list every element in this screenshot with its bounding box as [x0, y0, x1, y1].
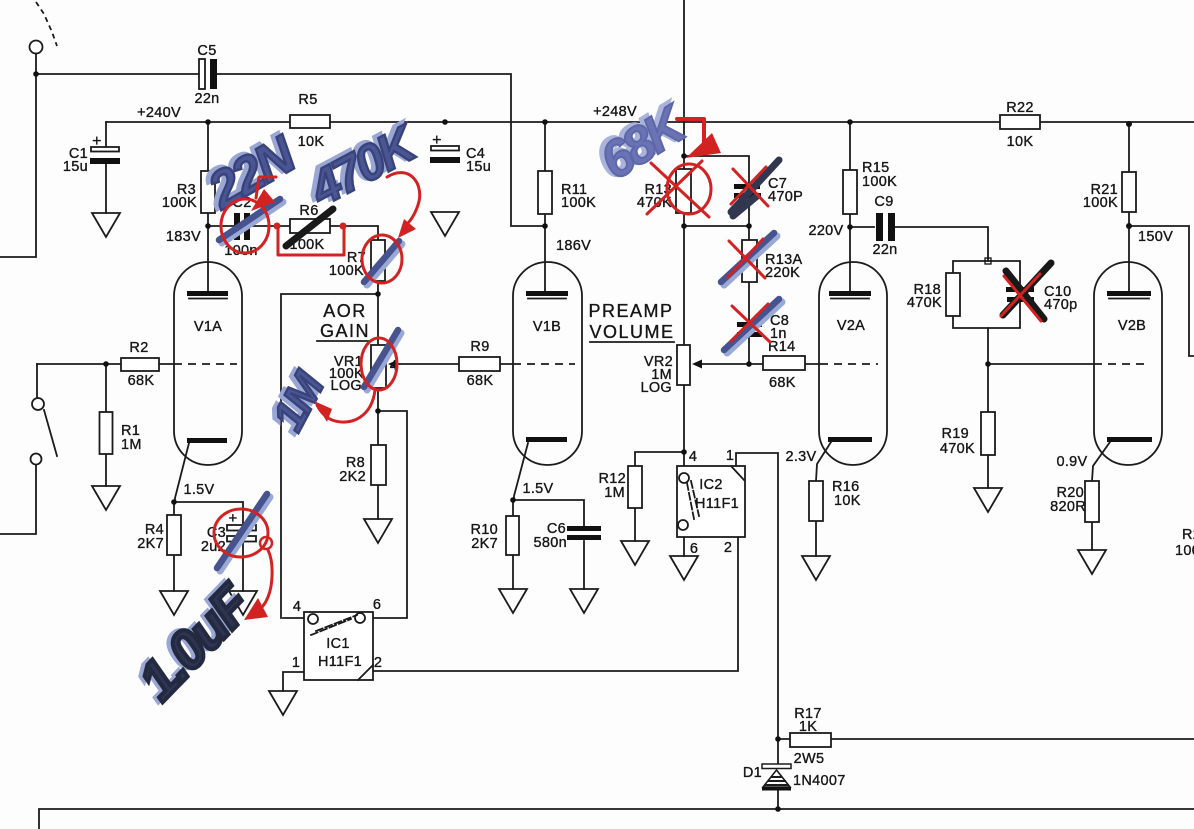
svg-text:R6: R6: [299, 203, 318, 219]
svg-text:186V: 186V: [556, 238, 591, 254]
svg-text:1M: 1M: [604, 485, 625, 501]
svg-text:470K: 470K: [907, 295, 942, 311]
svg-text:10K: 10K: [1007, 134, 1034, 150]
svg-text:580n: 580n: [534, 535, 567, 551]
svg-text:68K: 68K: [467, 373, 494, 389]
svg-text:1K: 1K: [799, 719, 817, 735]
svg-text:4: 4: [293, 599, 301, 615]
svg-text:100K: 100K: [561, 195, 596, 211]
svg-text:470P: 470P: [768, 189, 803, 205]
svg-text:68K: 68K: [769, 375, 796, 391]
svg-text:4: 4: [689, 449, 697, 465]
svg-text:470K: 470K: [940, 441, 975, 457]
svg-text:IC2: IC2: [699, 477, 722, 493]
svg-text:R9: R9: [470, 339, 489, 355]
svg-text:183V: 183V: [166, 229, 201, 245]
svg-text:6: 6: [690, 541, 698, 557]
svg-text:220V: 220V: [808, 223, 843, 239]
svg-text:1: 1: [726, 448, 734, 464]
svg-text:100K: 100K: [329, 263, 364, 279]
svg-text:C5: C5: [197, 43, 216, 59]
svg-text:+: +: [92, 133, 102, 150]
svg-text:AOR: AOR: [323, 301, 367, 321]
svg-text:H11F1: H11F1: [695, 496, 739, 512]
svg-text:2K7: 2K7: [137, 536, 164, 552]
svg-text:R14: R14: [768, 339, 796, 355]
svg-text:+: +: [432, 132, 442, 149]
svg-text:100K: 100K: [162, 195, 197, 211]
svg-text:2W5: 2W5: [794, 751, 825, 767]
svg-text:100K: 100K: [1175, 543, 1194, 559]
svg-text:2K7: 2K7: [471, 536, 498, 552]
svg-text:LOG: LOG: [330, 378, 362, 394]
svg-text:1.5V: 1.5V: [522, 481, 553, 497]
svg-text:1N4007: 1N4007: [793, 773, 846, 789]
svg-text:0.9V: 0.9V: [1056, 454, 1087, 470]
svg-text:PREAMP: PREAMP: [588, 301, 673, 321]
svg-text:10K: 10K: [298, 134, 325, 150]
svg-text:C9: C9: [874, 194, 893, 210]
svg-text:V2A: V2A: [837, 318, 865, 334]
svg-text:10K: 10K: [834, 493, 861, 509]
svg-text:V1A: V1A: [194, 319, 222, 335]
svg-text:1M: 1M: [121, 437, 142, 453]
svg-text:V1B: V1B: [533, 319, 561, 335]
svg-text:15u: 15u: [63, 159, 88, 175]
svg-text:VOLUME: VOLUME: [589, 322, 674, 342]
svg-text:22n: 22n: [872, 242, 897, 258]
svg-text:+240V: +240V: [137, 105, 181, 121]
svg-text:1.5V: 1.5V: [183, 482, 214, 498]
svg-text:H11F1: H11F1: [318, 654, 362, 670]
svg-text:R5: R5: [298, 92, 317, 108]
svg-text:15u: 15u: [466, 159, 491, 175]
svg-text:IC1: IC1: [326, 636, 349, 652]
svg-text:2K2: 2K2: [339, 469, 366, 485]
svg-text:1: 1: [292, 655, 300, 671]
svg-text:R22: R22: [1006, 100, 1034, 116]
svg-text:22n: 22n: [194, 91, 219, 107]
svg-text:2: 2: [374, 655, 382, 671]
svg-text:470p: 470p: [1044, 297, 1077, 313]
svg-text:100K: 100K: [862, 174, 897, 190]
svg-text:2: 2: [724, 540, 732, 556]
svg-text:GAIN: GAIN: [320, 321, 370, 341]
svg-text:R19: R19: [942, 426, 970, 442]
svg-text:150V: 150V: [1138, 229, 1173, 245]
svg-text:2u2: 2u2: [201, 539, 226, 555]
svg-text:2.3V: 2.3V: [785, 449, 816, 465]
svg-text:V2B: V2B: [1118, 318, 1146, 334]
svg-text:220K: 220K: [765, 265, 800, 281]
svg-text:68K: 68K: [128, 373, 155, 389]
svg-text:R23: R23: [1182, 527, 1194, 543]
svg-text:100K: 100K: [1083, 195, 1118, 211]
svg-text:820R: 820R: [1050, 499, 1086, 515]
svg-text:LOG: LOG: [640, 380, 672, 396]
svg-text:R2: R2: [129, 340, 148, 356]
svg-text:6: 6: [373, 597, 381, 613]
svg-text:D1: D1: [743, 765, 762, 781]
